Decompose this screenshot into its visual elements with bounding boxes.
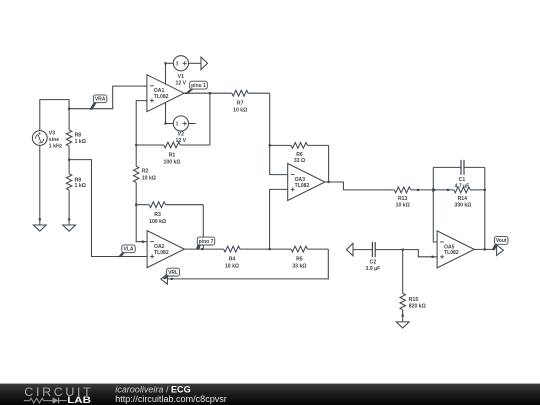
svg-text:TL082: TL082 xyxy=(444,250,459,256)
ground terminal triangle at C2 xyxy=(347,243,354,255)
op-amp OA3 xyxy=(288,164,325,201)
svg-text:33 kΩ: 33 kΩ xyxy=(292,263,306,269)
svg-text:TL082: TL082 xyxy=(295,183,310,189)
svg-text:R2: R2 xyxy=(142,169,149,175)
svg-text:V2: V2 xyxy=(178,132,184,138)
power terminal triangle at V1 xyxy=(201,57,208,69)
svg-text:100 kΩ: 100 kΩ xyxy=(164,159,181,165)
wire OA1 output xyxy=(184,92,232,94)
wire R5 around to VRL flag xyxy=(167,249,328,279)
resistor R1 feedback xyxy=(136,142,210,165)
wire feedback left vertical to OA5 inverting input xyxy=(433,167,437,242)
ground for R9 xyxy=(63,218,76,231)
wire R7 to OA3 node xyxy=(269,93,271,145)
voltage source V2 12V xyxy=(166,116,196,144)
svg-text:10 kΩ: 10 kΩ xyxy=(233,108,247,114)
svg-text:12 V: 12 V xyxy=(176,81,187,87)
wire OA3 inverting input column xyxy=(270,145,288,174)
wire OA1 output down to R1 xyxy=(209,93,211,145)
resistor R2 xyxy=(134,166,156,205)
svg-text:R14: R14 xyxy=(458,196,468,202)
resistor R5 xyxy=(270,246,329,269)
ground for R15 xyxy=(396,315,409,328)
resistor R6 feedback xyxy=(270,143,329,164)
svg-text:3.9 µF: 3.9 µF xyxy=(366,266,381,272)
svg-text:10 kΩ: 10 kΩ xyxy=(396,202,410,208)
svg-text:icarooliveira / ECG: icarooliveira / ECG xyxy=(115,384,190,394)
capacitor C1 xyxy=(433,160,485,190)
svg-text:R13: R13 xyxy=(398,196,408,202)
wire feedback right vertical to OA5 output xyxy=(484,167,486,249)
svg-text:C1: C1 xyxy=(459,177,466,183)
voltage source V3 xyxy=(32,130,62,149)
wire R3 down to OA2 output xyxy=(202,205,204,249)
wire R8/R9 node to OA2 non-inverting input (VLA net) xyxy=(69,160,147,257)
wire C2 node to OA5 non-inverting input xyxy=(403,250,437,257)
svg-text:VRL: VRL xyxy=(168,270,178,276)
svg-text:10 kΩ: 10 kΩ xyxy=(142,175,156,181)
node R4/R5/OA3+ xyxy=(268,248,270,250)
svg-text:100 kΩ: 100 kΩ xyxy=(149,219,166,225)
output terminal triangle xyxy=(497,245,504,255)
wire VRA node to OA1 inverting input xyxy=(69,86,147,109)
svg-text:TL082: TL082 xyxy=(154,250,169,256)
resistor R4 xyxy=(224,246,270,269)
svg-text:330 kΩ: 330 kΩ xyxy=(454,202,471,208)
wire OA1 + input column xyxy=(136,101,147,167)
svg-text:R15: R15 xyxy=(409,297,419,303)
svg-text:R7: R7 xyxy=(237,101,244,107)
svg-text:pino 7: pino 7 xyxy=(199,239,214,245)
wire OA2 output to R4 xyxy=(184,248,223,250)
resistor R8 xyxy=(66,109,85,160)
op-amp OA5 xyxy=(437,231,474,268)
svg-text:V1: V1 xyxy=(178,74,184,80)
node R2/R3 xyxy=(135,204,137,206)
svg-text:TL082: TL082 xyxy=(154,94,169,100)
svg-text:33 Ω: 33 Ω xyxy=(294,158,305,164)
svg-text:1 kHz: 1 kHz xyxy=(49,144,63,150)
svg-text:1 kΩ: 1 kΩ xyxy=(75,139,86,145)
voltage source V1 12V xyxy=(166,56,202,87)
svg-text:C2: C2 xyxy=(370,260,377,266)
wire OA3 output to R13 xyxy=(327,181,329,183)
node C2 / R15 xyxy=(402,248,404,250)
flag VLA xyxy=(118,253,125,258)
svg-text:R8: R8 xyxy=(75,133,82,139)
flag VRL xyxy=(163,276,170,280)
op-amp OA2 xyxy=(147,231,184,268)
svg-text:sine: sine xyxy=(49,137,59,143)
footer bar xyxy=(0,384,540,405)
op-amp OA1 xyxy=(147,75,184,112)
svg-text:Vout: Vout xyxy=(496,238,507,244)
wire OA1 V- pin to V2 xyxy=(165,103,167,124)
node R1 / OA1 + column xyxy=(135,144,137,146)
logo schematic glyph (resistor + diode) xyxy=(24,398,67,404)
node below R8 xyxy=(68,158,70,160)
svg-text:R3: R3 xyxy=(154,212,161,218)
flag VRA xyxy=(89,102,97,110)
ground for V3 xyxy=(33,218,46,231)
flag pino 1 xyxy=(184,89,193,94)
wire V3 top to R8 node xyxy=(40,100,69,131)
svg-text:1 kΩ: 1 kΩ xyxy=(75,183,86,189)
wire R6 down to OA3 output xyxy=(328,145,330,182)
flag Vout xyxy=(492,244,498,250)
svg-text:12 V: 12 V xyxy=(176,138,187,144)
svg-text:http://circuitlab.com/c8cpvsr: http://circuitlab.com/c8cpvsr xyxy=(115,394,227,404)
svg-text:R5: R5 xyxy=(296,256,303,262)
wire V3 bottom to ground xyxy=(39,145,41,225)
svg-text:R4: R4 xyxy=(229,256,236,262)
svg-text:VLA: VLA xyxy=(124,247,134,253)
wire OA5 output xyxy=(474,248,494,250)
resistor R14 xyxy=(447,187,485,208)
wire OA3 non-inverting input from R4/R5 node xyxy=(270,189,288,249)
flag pino 7 xyxy=(196,245,201,250)
svg-text:V3: V3 xyxy=(49,130,55,136)
svg-text:VRA: VRA xyxy=(95,97,106,103)
terminal triangle at VRL xyxy=(161,274,168,284)
resistor R9 xyxy=(66,160,85,225)
resistor R3 feedback xyxy=(136,202,203,225)
resistor R7 xyxy=(232,90,270,113)
svg-text:LAB: LAB xyxy=(67,395,91,405)
arrow junction into feedback node xyxy=(432,188,436,193)
svg-text:R1: R1 xyxy=(169,152,176,158)
capacitor C2 xyxy=(353,242,403,272)
node VRA junction xyxy=(68,108,70,110)
svg-text:10 kΩ: 10 kΩ xyxy=(225,263,239,269)
resistor R13 xyxy=(394,187,448,208)
svg-text:820 kΩ: 820 kΩ xyxy=(409,303,426,309)
wire R2 node down to OA2 inverting input xyxy=(136,205,147,242)
svg-text:pino 1: pino 1 xyxy=(191,83,206,89)
resistor R15 xyxy=(400,250,426,322)
wire OA1 V+ pin to V1 xyxy=(165,63,167,84)
